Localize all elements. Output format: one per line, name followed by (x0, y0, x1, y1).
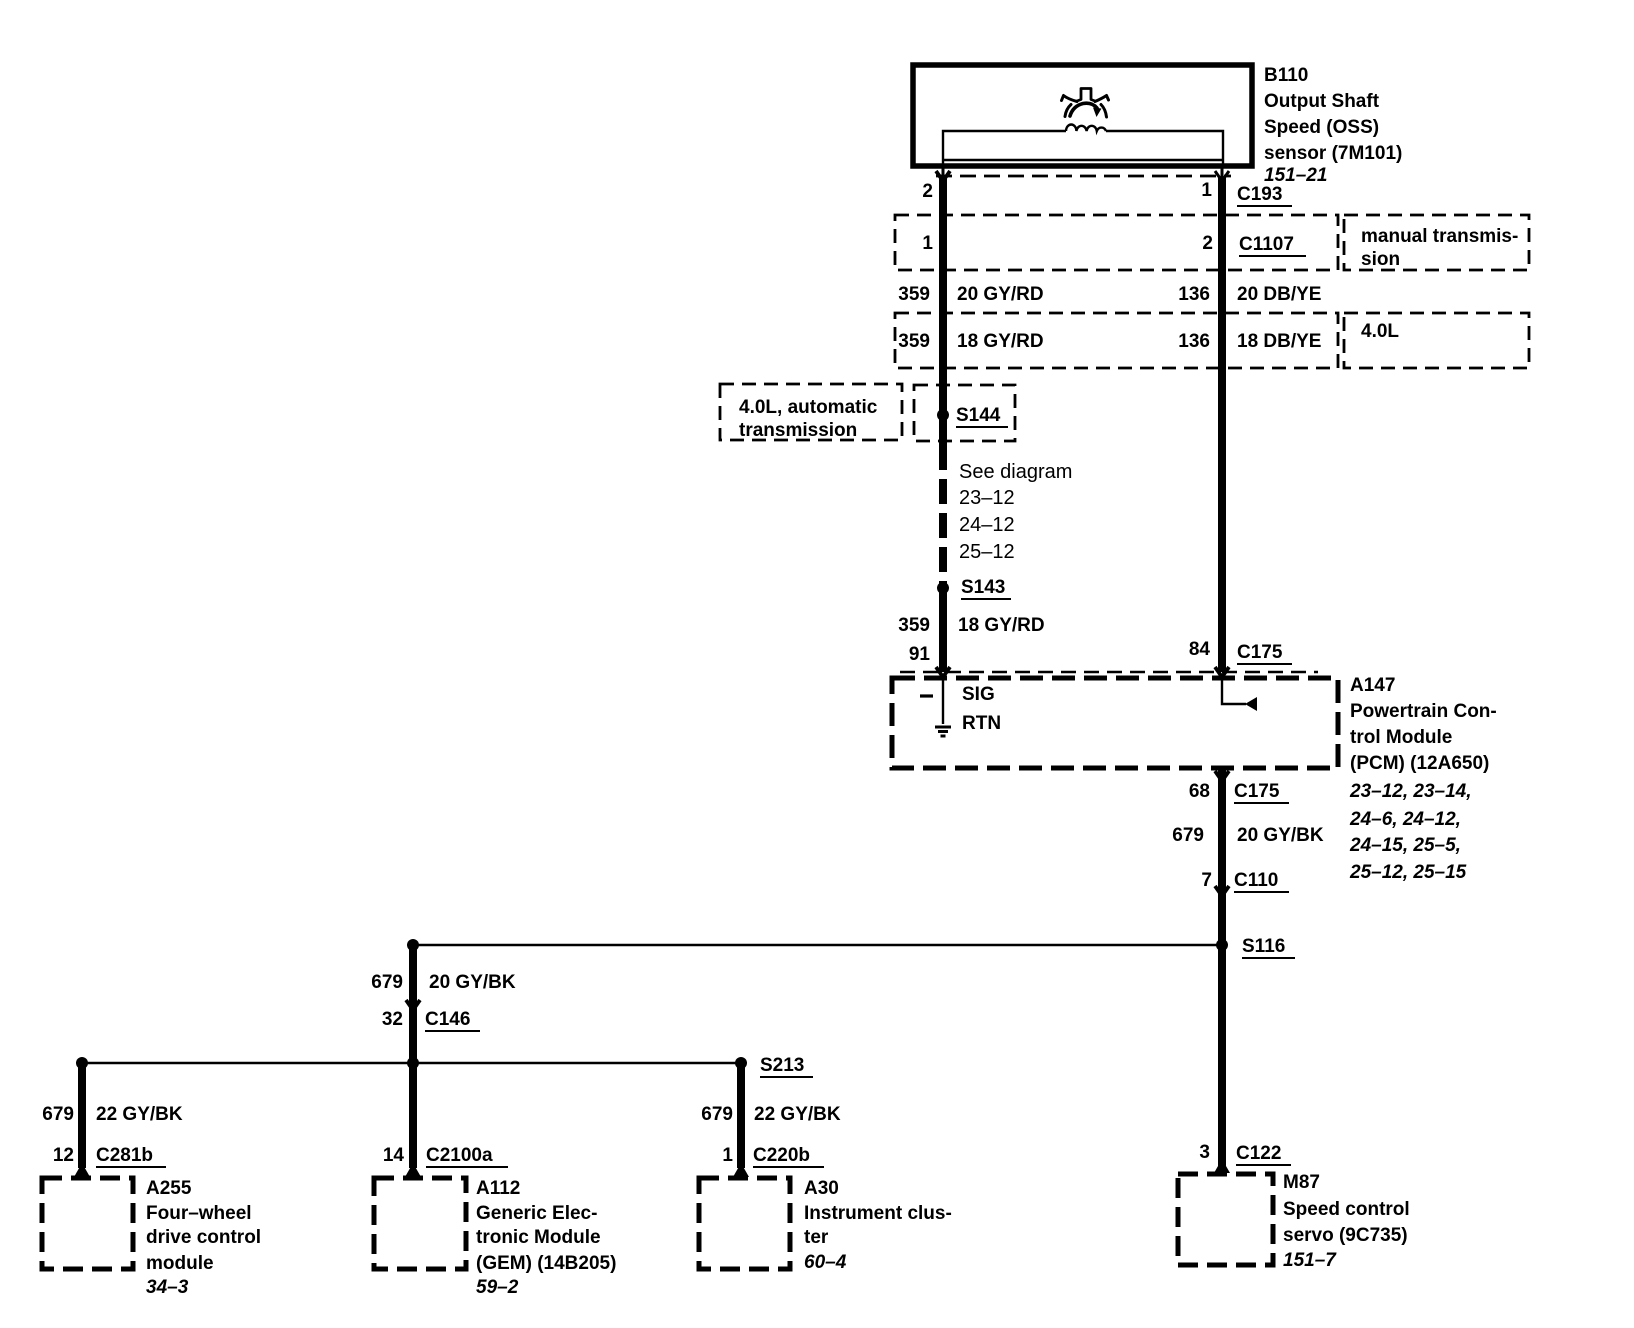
wire right drop x741 (circuit 679) (737, 1063, 745, 1168)
svg-text:C1107: C1107 (1239, 234, 1294, 255)
svg-text:Output Shaft: Output Shaft (1264, 91, 1380, 112)
pin 2 label at C193 (922, 181, 933, 202)
splice S116 dot right (1216, 939, 1228, 951)
svg-text:See diagram: See diagram (959, 461, 1072, 483)
svg-text:22 GY/BK: 22 GY/BK (96, 1104, 183, 1125)
svg-text:20 GY/BK: 20 GY/BK (1237, 825, 1324, 846)
connector label C193 (1237, 184, 1292, 206)
module text label A112 (476, 1178, 616, 1298)
svg-text:C175: C175 (1237, 642, 1283, 663)
sensor text label B110 (1264, 65, 1402, 186)
svg-text:2: 2 (922, 181, 933, 202)
connector label C220b (753, 1145, 824, 1167)
splice label S143 (961, 577, 1011, 599)
wire right main vertical (circuit 136) (1218, 164, 1226, 672)
svg-text:B110: B110 (1264, 65, 1308, 86)
svg-text:84: 84 (1189, 639, 1211, 660)
svg-text:trol Module: trol Module (1350, 727, 1452, 748)
svg-text:Instrument clus-: Instrument clus- (804, 1203, 952, 1224)
connector label C281b (96, 1145, 166, 1167)
svg-text:151–21: 151–21 (1264, 165, 1327, 186)
arrow down at C110 (1215, 886, 1229, 896)
svg-text:A30: A30 (804, 1178, 839, 1199)
module A255 heavy dashed box (42, 1178, 133, 1269)
svg-text:Speed (OSS): Speed (OSS) (1264, 117, 1379, 138)
svg-text:A112: A112 (476, 1178, 520, 1199)
svg-text:M87: M87 (1283, 1172, 1320, 1193)
svg-text:Speed control: Speed control (1283, 1199, 1410, 1220)
svg-text:drive control: drive control (146, 1227, 261, 1248)
wire label 136 20 DB/YE (1178, 284, 1321, 305)
wire label 679 22 GY/BK left (42, 1104, 183, 1125)
pin 1 label at C193 (1201, 180, 1212, 201)
svg-text:servo (9C735): servo (9C735) (1283, 1225, 1408, 1246)
svg-text:module: module (146, 1253, 214, 1274)
svg-text:24–12: 24–12 (959, 514, 1015, 536)
svg-text:60–4: 60–4 (804, 1252, 847, 1273)
note box: 4.0L automatic transmission (720, 384, 902, 441)
SIG RTN pin label (962, 684, 1001, 734)
svg-text:C281b: C281b (96, 1145, 153, 1166)
svg-text:C122: C122 (1236, 1143, 1281, 1164)
servo M87 heavy dashed box (1178, 1174, 1273, 1265)
arrow up at C122 (1214, 1159, 1230, 1173)
minus sign label (920, 694, 933, 697)
svg-text:18 GY/RD: 18 GY/RD (957, 331, 1044, 352)
arrow down at C146 (406, 1000, 420, 1010)
pin 91 label (909, 644, 931, 665)
svg-text:sensor (7M101): sensor (7M101) (1264, 143, 1402, 164)
connector C175 dashed line (900, 671, 1318, 673)
module A30 heavy dashed box (699, 1178, 790, 1269)
splice label S213 (760, 1055, 813, 1077)
connector label C175 top (1237, 642, 1292, 664)
wire left main dashed section below S144 (939, 445, 947, 592)
arrow up at C220b (733, 1163, 749, 1177)
svg-text:20 GY/BK: 20 GY/BK (429, 972, 516, 993)
splice label S116 (1242, 936, 1295, 958)
svg-text:C220b: C220b (753, 1145, 810, 1166)
wire label 359 20 GY/RD (898, 284, 1043, 305)
wire label 136 18 DB/YE in box (1178, 331, 1321, 352)
splice S144 junction dot (937, 409, 949, 421)
svg-text:A147: A147 (1350, 675, 1395, 696)
svg-text:20 GY/RD: 20 GY/RD (957, 284, 1044, 305)
svg-text:SIG: SIG (962, 684, 995, 705)
svg-text:25–12, 25–15: 25–12, 25–15 (1349, 862, 1467, 883)
svg-text:S116: S116 (1242, 936, 1285, 957)
svg-text:tronic Module: tronic Module (476, 1227, 601, 1248)
svg-text:34–3: 34–3 (146, 1277, 189, 1298)
svg-text:679: 679 (701, 1104, 733, 1125)
wire left drop x82 (circuit 679) (78, 1063, 86, 1168)
wire label 359 18 GY/RD lower (898, 615, 1044, 636)
arrow down at C193 right wire (1215, 171, 1229, 181)
svg-text:23–12, 23–14,: 23–12, 23–14, (1349, 781, 1472, 802)
pin 14 label (383, 1145, 405, 1166)
sensor B110 box outline (913, 65, 1252, 166)
svg-text:359: 359 (898, 615, 930, 636)
gear tone-wheel symbol (1062, 89, 1109, 118)
svg-text:59–2: 59–2 (476, 1277, 519, 1298)
splice S143 junction dot (937, 582, 949, 594)
svg-text:RTN: RTN (962, 713, 1001, 734)
svg-text:18 DB/YE: 18 DB/YE (1237, 331, 1321, 352)
svg-text:7: 7 (1201, 870, 1212, 891)
arrow down at C175 left wire (936, 667, 950, 677)
wire label 679 20 GY/BK right (1172, 825, 1324, 846)
svg-text:20 DB/YE: 20 DB/YE (1237, 284, 1321, 305)
splice S116 dot left (407, 939, 419, 951)
svg-text:1: 1 (1201, 180, 1212, 201)
svg-text:25–12: 25–12 (959, 541, 1015, 563)
svg-text:1: 1 (922, 233, 933, 254)
note box: manual transmission (1344, 215, 1529, 270)
sensor B110 inner winding rectangle (943, 131, 1223, 166)
svg-text:4.0L: 4.0L (1361, 321, 1399, 342)
module A112 heavy dashed box (374, 1178, 466, 1269)
splice S144 dashed box (914, 385, 1015, 441)
arrow up at C2100a (405, 1163, 421, 1177)
svg-text:359: 359 (898, 284, 930, 305)
connector label C2100a (426, 1145, 508, 1167)
svg-text:12: 12 (53, 1145, 74, 1166)
svg-text:136: 136 (1178, 284, 1210, 305)
wire label 679 22 GY/BK right (701, 1104, 841, 1125)
pin 7 label (1201, 870, 1212, 891)
splice S213 dot middle (407, 1057, 419, 1069)
splice label S144 (956, 405, 1008, 427)
pin 2 label at C1107 (1202, 233, 1213, 254)
PCM A147 heavy dashed box (892, 678, 1338, 768)
connector C193 dashed line (936, 175, 1231, 178)
pin 1 label at C220b (722, 1145, 733, 1166)
connector label C175 bottom (1234, 781, 1289, 803)
svg-text:Four–wheel: Four–wheel (146, 1203, 252, 1224)
wire branch vertical x413 (circuit 679) (409, 945, 417, 1168)
arrow down at C193 left wire (936, 171, 950, 181)
wire left main lower solid to PCM (939, 590, 947, 672)
svg-text:Generic Elec-: Generic Elec- (476, 1203, 597, 1224)
svg-text:1: 1 (722, 1145, 733, 1166)
wire left main vertical (circuit 359) upper solid (939, 164, 947, 445)
wire thin jog with arrow inside PCM right (1222, 677, 1257, 711)
svg-text:68: 68 (1189, 781, 1210, 802)
splice S213 dot right (735, 1057, 747, 1069)
4.0L wire gauge dashed box (895, 313, 1338, 368)
module text label A255 (146, 1178, 261, 1298)
connector label C1107 (1239, 234, 1306, 256)
svg-text:transmission: transmission (739, 420, 857, 441)
svg-text:151–7: 151–7 (1283, 1250, 1337, 1271)
svg-text:manual transmis-: manual transmis- (1361, 226, 1518, 247)
wire right main below PCM (circuit 679) (1218, 768, 1226, 1168)
wire label 679 20 GY/BK branch (371, 972, 516, 993)
svg-text:14: 14 (383, 1145, 405, 1166)
svg-text:24–15, 25–5,: 24–15, 25–5, (1349, 835, 1461, 856)
PCM text label A147 (1349, 675, 1497, 883)
connector label C146 (425, 1009, 480, 1031)
svg-text:ter: ter (804, 1227, 829, 1248)
arrow up at C281b (74, 1163, 90, 1177)
note box: 4.0L (1344, 313, 1529, 368)
wire label 359 18 GY/RD in box (898, 331, 1043, 352)
svg-text:C193: C193 (1237, 184, 1282, 205)
svg-text:3: 3 (1199, 1142, 1210, 1163)
svg-text:(PCM) (12A650): (PCM) (12A650) (1350, 753, 1489, 774)
svg-text:679: 679 (42, 1104, 74, 1125)
svg-text:4.0L, automatic: 4.0L, automatic (739, 397, 878, 418)
svg-text:S143: S143 (961, 577, 1005, 598)
svg-text:2: 2 (1202, 233, 1213, 254)
svg-text:sion: sion (1361, 249, 1400, 270)
pin 84 label (1189, 639, 1211, 660)
svg-text:C146: C146 (425, 1009, 470, 1030)
svg-text:18 GY/RD: 18 GY/RD (958, 615, 1045, 636)
pin 3 label (1199, 1142, 1210, 1163)
svg-text:679: 679 (371, 972, 403, 993)
splice S213 horizontal wire (82, 1062, 741, 1065)
inductor coil L (sensor pickup coil) (1066, 124, 1106, 131)
svg-text:C110: C110 (1234, 870, 1278, 891)
wire thin inside PCM to ground (942, 677, 944, 724)
svg-text:679: 679 (1172, 825, 1204, 846)
svg-text:S144: S144 (956, 405, 1001, 426)
arrow down at C175 right wire (1215, 667, 1229, 677)
svg-text:32: 32 (382, 1009, 403, 1030)
ground symbol inside PCM (935, 727, 951, 736)
svg-text:24–6, 24–12,: 24–6, 24–12, (1349, 809, 1461, 830)
module text label A30 (804, 1178, 952, 1273)
svg-text:91: 91 (909, 644, 931, 665)
splice S213 dot left (76, 1057, 88, 1069)
connector C1107 dashed box (895, 215, 1338, 270)
svg-text:Powertrain Con-: Powertrain Con- (1350, 701, 1497, 722)
pin 12 label (53, 1145, 74, 1166)
connector label C110 (1234, 870, 1289, 892)
pin 68 label (1189, 781, 1210, 802)
svg-text:S213: S213 (760, 1055, 804, 1076)
svg-text:A255: A255 (146, 1178, 192, 1199)
svg-text:359: 359 (898, 331, 930, 352)
svg-text:22 GY/BK: 22 GY/BK (754, 1104, 841, 1125)
svg-text:C2100a: C2100a (426, 1145, 493, 1166)
pin 1 label at C1107 (922, 233, 933, 254)
arrow down at C175 below PCM (1215, 771, 1229, 781)
pin 32 label (382, 1009, 403, 1030)
note text: See diagram 23-12 24-12 25-12 (959, 461, 1072, 563)
servo text label M87 (1283, 1172, 1410, 1271)
connector label C122 (1236, 1143, 1291, 1165)
splice S116 horizontal wire (413, 944, 1222, 947)
svg-text:C175: C175 (1234, 781, 1280, 802)
svg-text:(GEM) (14B205): (GEM) (14B205) (476, 1253, 616, 1274)
svg-text:23–12: 23–12 (959, 487, 1015, 509)
svg-text:136: 136 (1178, 331, 1210, 352)
